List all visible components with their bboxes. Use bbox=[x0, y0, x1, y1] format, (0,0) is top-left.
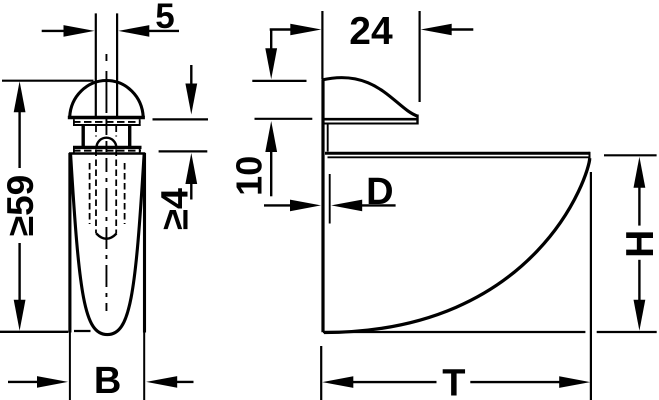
hidden bore bottom cup arc bbox=[96, 234, 116, 239]
dimension D : extension line bbox=[329, 174, 331, 224]
dimension D : arrows bbox=[264, 200, 396, 212]
dimension >=59 : dimension line with arrows bbox=[14, 81, 26, 330]
inner arch in neck bbox=[97, 138, 117, 148]
dimension H : bottom extension line (left piece from body corner) bbox=[323, 331, 585, 333]
dimension H : arrows bbox=[634, 157, 646, 331]
svg-text:≥4: ≥4 bbox=[155, 188, 197, 230]
dimension B : extension lines bbox=[70, 333, 144, 400]
vertical centerline bbox=[105, 54, 107, 311]
dimension T : arrows bbox=[322, 376, 590, 388]
pin side edge left (extension line of dim 5 continuing through dome) bbox=[95, 13, 97, 117]
svg-text:5: 5 bbox=[155, 0, 174, 36]
shelf plate right end face bbox=[589, 152, 591, 159]
dimension H : top extension line bbox=[604, 154, 657, 156]
top flange bar under dome bbox=[68, 118, 145, 127]
hidden bore lines inner pair bbox=[96, 126, 116, 234]
shelf plate bottom thin line bbox=[328, 156, 590, 158]
top clamp curve bbox=[322, 78, 418, 117]
dimension T : extension lines bbox=[321, 172, 591, 400]
dimension H : bottom extension line (right piece) bbox=[597, 331, 657, 333]
dimension 24 : arrows bbox=[270, 24, 474, 36]
svg-text:H: H bbox=[619, 230, 659, 258]
body right edge bbox=[143, 153, 146, 333]
lower flange bar bbox=[73, 147, 142, 153]
dimension 24 : extension lines bbox=[322, 11, 419, 102]
pin side edge right (extension line of dim 5 continuing through dome) bbox=[116, 13, 118, 117]
neck side walls bbox=[83, 125, 130, 147]
dimension 10 : arrows bbox=[265, 30, 277, 197]
shelf plate top bbox=[325, 152, 590, 155]
dimension B : arrows bbox=[8, 376, 194, 388]
tapered tip outline (parabola) bbox=[71, 155, 145, 335]
svg-text:D: D bbox=[366, 171, 393, 213]
svg-text:B: B bbox=[94, 360, 121, 400]
wall line inside body bbox=[74, 330, 91, 332]
back plate inner edge bbox=[327, 124, 329, 152]
hidden bore lines outer pair bbox=[90, 163, 125, 224]
wall line left of body bbox=[0, 331, 68, 333]
dimension 10 : extension lines bbox=[252, 81, 312, 119]
body left edge bbox=[68, 153, 71, 333]
svg-text:24: 24 bbox=[349, 10, 393, 53]
bracket underside curve bbox=[324, 158, 590, 332]
dimension >=59 : top extension line bbox=[2, 80, 94, 82]
svg-text:T: T bbox=[442, 362, 465, 400]
svg-text:≥59: ≥59 bbox=[0, 175, 41, 236]
dimension >=4 : arrows bbox=[185, 65, 197, 200]
dimension 5 : dimension line arrows bbox=[42, 25, 179, 37]
back plate edge bbox=[321, 80, 324, 333]
clamp bottom bar bbox=[323, 115, 418, 125]
dimension >=4 : extension lines bbox=[153, 119, 209, 151]
dome cap outline bbox=[70, 81, 144, 117]
svg-text:10: 10 bbox=[229, 156, 270, 196]
body top edge bbox=[69, 152, 145, 154]
